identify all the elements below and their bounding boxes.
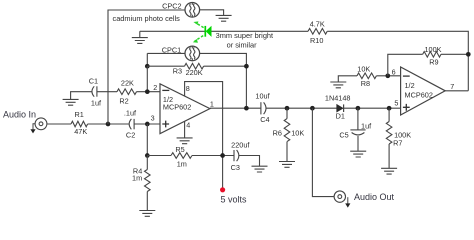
ground at pin4 — [177, 138, 193, 144]
label U1 1/2 — [163, 95, 173, 104]
ground at R8 — [330, 82, 346, 88]
wire R5 right — [192, 155, 234, 157]
label R2 — [119, 97, 128, 106]
svg-text:R2: R2 — [119, 97, 128, 106]
wire C3 to ground — [239, 156, 260, 167]
label R3 — [173, 67, 182, 76]
node R7 junction — [387, 106, 392, 111]
svg-text:1uf: 1uf — [361, 122, 372, 131]
svg-text:R3: R3 — [173, 67, 182, 76]
pin label 5 — [394, 98, 398, 107]
resistor R9 — [423, 52, 441, 58]
svg-text:Audio Out: Audio Out — [354, 192, 395, 202]
svg-text:4.7K: 4.7K — [310, 19, 325, 28]
svg-text:R7: R7 — [393, 139, 402, 148]
label 4.7K — [310, 19, 325, 28]
svg-text:C5: C5 — [339, 131, 348, 140]
svg-text:8: 8 — [186, 84, 190, 93]
svg-text:6: 6 — [392, 68, 396, 77]
svg-text:R5: R5 — [175, 145, 184, 154]
pin label 2 — [153, 83, 157, 92]
svg-text:10K: 10K — [357, 64, 370, 73]
LED D2 3mm green — [205, 26, 211, 37]
label 1uf C1 — [91, 98, 102, 107]
ground at C1 — [63, 99, 79, 105]
svg-text:1m: 1m — [177, 159, 187, 168]
ground at C3 — [252, 166, 268, 172]
svg-text:R9: R9 — [429, 57, 438, 66]
svg-text:MCP602: MCP602 — [163, 102, 191, 111]
label 5 volts — [221, 195, 248, 205]
wire U1 output row — [210, 107, 261, 109]
label C4 — [260, 115, 269, 124]
resistor R1 — [71, 121, 88, 127]
wire LED anode to R10 — [212, 30, 309, 32]
resistor R8 — [357, 73, 376, 79]
wire R6 leads — [286, 108, 288, 161]
resistor R6 — [284, 119, 290, 142]
op-amp U1 plus — [162, 121, 169, 128]
op-amp U2 minus — [403, 75, 410, 77]
wire C1 to R2 — [97, 91, 117, 93]
wire R1 to node A — [88, 123, 129, 125]
label 100K R9 — [424, 45, 441, 54]
svg-text:7: 7 — [450, 82, 454, 91]
svg-text:C3: C3 — [231, 163, 240, 172]
label Audio Out — [354, 192, 395, 202]
wire C2 to pin3 — [134, 123, 160, 125]
svg-text:1/2: 1/2 — [405, 81, 415, 90]
wire R10 to right rail — [327, 31, 468, 91]
resistor R10 — [308, 29, 327, 35]
wire R5 left — [147, 155, 171, 157]
label R4 — [133, 166, 142, 175]
label Audio In — [3, 110, 36, 120]
svg-text:3: 3 — [151, 114, 155, 123]
svg-text:3mm super bright: 3mm super bright — [216, 31, 274, 40]
wire R3 right — [204, 65, 247, 67]
svg-text:1N4148: 1N4148 — [325, 93, 351, 102]
label 22K — [121, 78, 134, 87]
node C3 junction — [220, 153, 225, 158]
label U1 MCP602 — [163, 102, 191, 111]
svg-text:CPC2: CPC2 — [162, 1, 181, 10]
label 1m R5 — [177, 159, 187, 168]
svg-text:C1: C1 — [89, 76, 98, 85]
node R3 left junction — [145, 64, 150, 69]
label U2 1/2 — [405, 81, 415, 90]
label .1uf — [124, 109, 137, 118]
label 1N4148 — [325, 93, 351, 102]
label U2 MCP602 — [405, 91, 433, 100]
pin label 4 — [186, 121, 190, 130]
wire CPC2 to ground — [200, 10, 224, 15]
wire pin3 node down — [146, 124, 148, 156]
label R1 — [75, 110, 84, 119]
svg-text:C4: C4 — [260, 115, 269, 124]
node 5 volts — [220, 187, 225, 192]
wire R2 to pin2 — [137, 91, 161, 93]
wire ground to C1 — [71, 92, 92, 100]
wire C4 to D1 — [266, 107, 337, 109]
label C2 — [126, 130, 135, 139]
pin label 8 — [186, 84, 190, 93]
svg-text:220uf: 220uf — [231, 140, 250, 149]
label C3 — [231, 163, 240, 172]
wire riser node A to CPC2 row — [108, 10, 185, 124]
node C5 junction — [356, 106, 361, 111]
pin label 7 — [450, 82, 454, 91]
wire ground to R8 — [338, 76, 357, 82]
svg-text:10K: 10K — [291, 129, 304, 138]
wire D1 to pin5 — [344, 107, 401, 109]
LED light arrow lower — [193, 36, 203, 43]
node A junction — [106, 122, 111, 127]
label or similar — [227, 41, 258, 50]
svg-text:R1: R1 — [75, 110, 84, 119]
label R6 — [273, 129, 282, 138]
wire pin8 to 5V column — [185, 82, 223, 190]
resistor R3 — [185, 63, 204, 69]
svg-text:100K: 100K — [424, 45, 441, 54]
ground at LED cathode — [132, 38, 148, 44]
label 1m R4 — [132, 173, 142, 182]
capacitor C1 — [92, 86, 97, 96]
resistor R4 — [145, 170, 151, 192]
node pin3 junction — [145, 122, 150, 127]
label 1uf C5 — [361, 122, 372, 131]
label C1 — [89, 76, 98, 85]
wire CPC1 to feedback column — [200, 53, 247, 108]
svg-text:R8: R8 — [361, 79, 370, 88]
wire CPC1 left drop — [147, 53, 185, 66]
ground at R4 — [139, 211, 155, 217]
wire LED cathode to ground — [140, 31, 205, 37]
node R6 junction — [285, 106, 290, 111]
svg-text:MCP602: MCP602 — [405, 91, 433, 100]
label R9 — [429, 57, 438, 66]
pin label 1 — [210, 99, 214, 108]
capacitor C4 — [261, 102, 266, 114]
label 10K R6 — [291, 129, 304, 138]
label 100K R7 — [394, 131, 411, 140]
ground at C5 — [350, 151, 366, 157]
photocell CPC2 — [185, 3, 200, 18]
capacitor C2 — [129, 119, 134, 129]
svg-text:C2: C2 — [126, 130, 135, 139]
node R5 left junction — [145, 153, 150, 158]
wire audio-in row — [47, 123, 71, 125]
label R5 — [175, 145, 184, 154]
svg-text:5: 5 — [394, 98, 398, 107]
svg-text:R10: R10 — [310, 36, 323, 45]
svg-text:220K: 220K — [186, 68, 203, 77]
label CPC1 — [162, 45, 181, 54]
label 10K R8 — [357, 64, 370, 73]
wire C5 stub — [357, 108, 359, 129]
resistor R5 — [171, 153, 192, 159]
label D1 — [336, 111, 345, 120]
svg-text:cadmium photo cells: cadmium photo cells — [113, 14, 181, 23]
resistor R7 — [386, 122, 392, 145]
svg-text:1: 1 — [210, 99, 214, 108]
svg-text:1uf: 1uf — [91, 98, 102, 107]
label CPC2 — [162, 1, 181, 10]
ground at R7 — [381, 168, 397, 174]
ground at R6 — [279, 162, 295, 168]
diode D1 1N4148 — [337, 104, 344, 112]
pin label 3 — [151, 114, 155, 123]
audio in jack — [30, 118, 46, 133]
label 10uf — [255, 91, 270, 100]
node pin2 junction — [145, 89, 150, 94]
label 220uf — [231, 140, 250, 149]
svg-text:22K: 22K — [121, 78, 134, 87]
op-amp U1 minus — [162, 89, 169, 91]
wire R7 leads — [388, 108, 390, 168]
wire inverting column — [146, 66, 148, 92]
svg-text:Audio In: Audio In — [3, 110, 36, 120]
wire R4 leads — [146, 156, 148, 211]
svg-text:CPC1: CPC1 — [162, 45, 181, 54]
resistor R2 — [117, 89, 137, 95]
svg-text:5 volts: 5 volts — [221, 195, 248, 205]
svg-text:R6: R6 — [273, 129, 282, 138]
svg-text:or similar: or similar — [227, 41, 258, 50]
op-amp U2 1/2 MCP602 — [401, 67, 446, 115]
wire pin6 to R9 — [388, 54, 423, 76]
op-amp U2 plus — [403, 104, 410, 111]
svg-text:10uf: 10uf — [255, 91, 270, 100]
photocell CPC1 — [185, 46, 200, 61]
label 47K — [74, 127, 87, 136]
wire R9 to right rail — [441, 53, 468, 55]
node R9 right junction — [466, 52, 471, 57]
node R3 right junction — [244, 64, 249, 69]
wire to audio out — [312, 108, 333, 196]
capacitor C5 — [350, 130, 365, 135]
node pin6 junction — [385, 73, 390, 78]
wire pin4 stub — [184, 121, 186, 137]
node audio-out junction — [310, 106, 315, 111]
capacitor C3 — [234, 150, 239, 161]
svg-text:D1: D1 — [336, 111, 345, 120]
label C5 — [339, 131, 348, 140]
svg-text:2: 2 — [153, 83, 157, 92]
label 220K — [186, 68, 203, 77]
wire R8 to pin6 — [376, 75, 400, 77]
wire R3 left — [147, 65, 184, 67]
label 3mm super bright — [216, 31, 274, 40]
node feedback junction — [244, 106, 249, 111]
svg-text:.1uf: .1uf — [124, 109, 137, 118]
op-amp U1 1/2 MCP602 — [160, 84, 210, 134]
label R10 — [310, 36, 323, 45]
wire C5 to ground — [357, 136, 359, 151]
label R8 — [361, 79, 370, 88]
wire U2 output — [445, 90, 468, 92]
ground at CPC2 — [216, 15, 232, 21]
label cadmium photo cells — [113, 14, 181, 23]
LED light arrow upper — [193, 21, 203, 27]
label R7 — [393, 139, 402, 148]
svg-text:4: 4 — [186, 121, 190, 130]
svg-text:1m: 1m — [132, 173, 142, 182]
pin label 6 — [392, 68, 396, 77]
svg-text:47K: 47K — [74, 127, 87, 136]
audio out jack — [334, 191, 350, 208]
